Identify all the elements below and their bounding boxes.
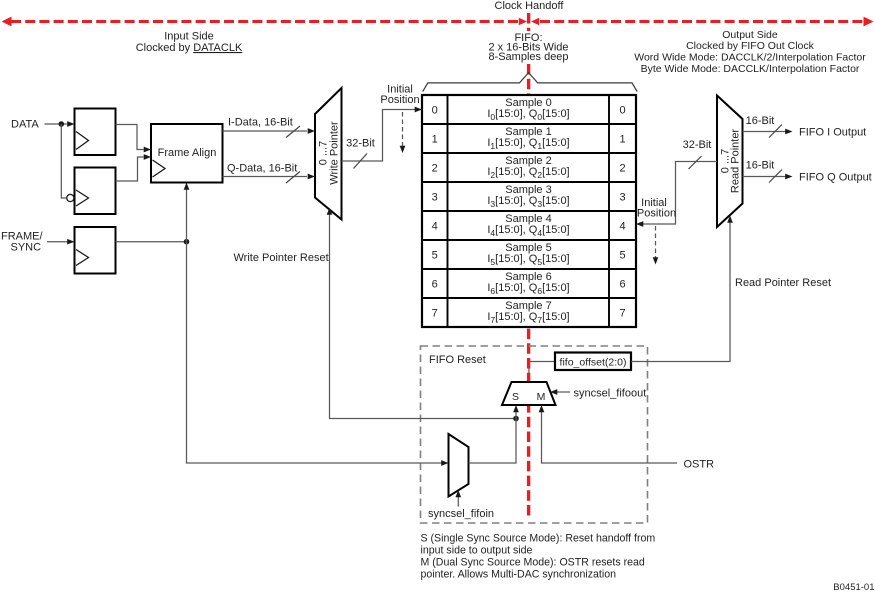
label 32-Bit write (346, 138, 375, 150)
svg-text:4: 4 (432, 220, 438, 232)
wire DATA input (45, 121, 75, 127)
wire I latch to Frame Align (116, 125, 152, 153)
label I-Data 16-Bit (228, 117, 293, 129)
wire initial position read (dashed arrow) (653, 226, 659, 265)
svg-text:Read Pointer Reset: Read Pointer Reset (735, 277, 831, 289)
svg-text:3: 3 (432, 191, 438, 203)
svg-text:SYNC: SYNC (11, 242, 42, 254)
label FRAME/SYNC (1, 231, 44, 254)
svg-text:8-Samples deep: 8-Samples deep (488, 51, 568, 63)
wire syncsel_fifoin select (455, 490, 461, 507)
svg-text:S (Single Sync Source Mode): R: S (Single Sync Source Mode): Reset hando… (421, 533, 656, 545)
svg-text:Clocked by DATACLK: Clocked by DATACLK (136, 42, 243, 54)
svg-text:DATA: DATA (11, 119, 39, 131)
svg-text:Sample 4: Sample 4 (505, 213, 551, 225)
svg-text:fifo_offset(2:0): fifo_offset(2:0) (560, 357, 627, 369)
svg-text:M: M (537, 391, 546, 403)
svg-text:7: 7 (432, 307, 438, 319)
label initial position read (637, 197, 676, 220)
label FIFO I Output (799, 127, 866, 139)
svg-text:FIFO Q Output: FIFO Q Output (799, 172, 872, 184)
node clock handoff boundary (red dashed vertical line) (527, 13, 530, 520)
svg-text:syncsel_fifoout: syncsel_fifoout (574, 388, 647, 400)
block Frame Align (151, 124, 223, 183)
svg-text:Input Side: Input Side (164, 31, 214, 43)
wire clock handoff span right (red dashed double arrow) (531, 17, 874, 27)
svg-text:Sample 2: Sample 2 (505, 155, 551, 167)
wire Q-Data bus (223, 172, 316, 184)
wire Q latch to Frame Align (116, 154, 152, 181)
mux S/M sync select (502, 382, 556, 405)
label DATA (11, 119, 39, 131)
svg-text:OSTR: OSTR (684, 459, 715, 471)
svg-text:4: 4 (619, 220, 625, 232)
wire syncsel_fifoin mux output (469, 419, 517, 464)
svg-text:2: 2 (619, 162, 625, 174)
wire syncsel_fifoout select (550, 389, 570, 395)
wire M input from OSTR (539, 405, 677, 463)
svg-text:32-Bit: 32-Bit (683, 139, 712, 151)
flip-flop FRAME/SYNC latch (75, 227, 116, 274)
wire FRAME/SYNC input (47, 239, 75, 245)
svg-text:0: 0 (432, 104, 438, 116)
block fifo_offset register (555, 353, 631, 371)
wire fifo_offset to read pointer reset (631, 216, 733, 362)
label syncsel_fifoout (574, 388, 647, 400)
label 32-Bit read (683, 139, 712, 151)
brace over FIFO (423, 73, 638, 92)
svg-text:Sample 0: Sample 0 (505, 97, 551, 109)
FIFO table (422, 95, 636, 327)
wire initial position write (dashed arrow) (400, 112, 406, 153)
label FIFO Q Output (799, 172, 872, 184)
svg-text:6: 6 (619, 278, 625, 290)
svg-text:Read Pointer: Read Pointer (730, 129, 742, 194)
wire clock handoff span left (red dashed double arrow) (2, 17, 528, 27)
svg-text:Clocked by FIFO Out Clock: Clocked by FIFO Out Clock (686, 40, 815, 52)
svg-text:Write Pointer: Write Pointer (329, 121, 341, 185)
svg-text:7: 7 (619, 307, 625, 319)
svg-text:Sample 7: Sample 7 (505, 300, 551, 312)
label Write Pointer Reset (234, 252, 329, 264)
svg-text:M (Dual Sync Source Mode): OST: M (Dual Sync Source Mode): OSTR resets r… (421, 557, 645, 569)
svg-text:Position: Position (380, 94, 419, 106)
svg-text:FIFO I Output: FIFO I Output (799, 127, 866, 139)
FIFO Reset dashed region (421, 346, 648, 523)
svg-text:16-Bit: 16-Bit (746, 115, 775, 127)
svg-text:I7[15:0], Q7[15:0]: I7[15:0], Q7[15:0] (487, 311, 569, 325)
svg-text:2: 2 (432, 162, 438, 174)
mux read pointer (717, 96, 743, 228)
wire write pointer reset (327, 208, 519, 422)
FIFO table sample rows (487, 97, 569, 325)
label Output Side clock description (634, 29, 866, 75)
svg-text:Sample 3: Sample 3 (505, 184, 551, 196)
svg-text:I2[15:0], Q2[15:0]: I2[15:0], Q2[15:0] (487, 166, 569, 180)
svg-text:Write Pointer Reset: Write Pointer Reset (234, 252, 329, 264)
svg-text:B0451-01: B0451-01 (833, 582, 874, 592)
svg-text:Q-Data, 16-Bit: Q-Data, 16-Bit (227, 163, 297, 175)
svg-text:Sample 1: Sample 1 (505, 126, 551, 138)
svg-text:I6[15:0], Q6[15:0]: I6[15:0], Q6[15:0] (487, 282, 569, 296)
svg-text:I1[15:0], Q1[15:0]: I1[15:0], Q1[15:0] (487, 137, 569, 151)
FIFO table row numbers (432, 104, 626, 319)
svg-text:1: 1 (432, 133, 438, 145)
svg-text:Sample 6: Sample 6 (505, 271, 551, 283)
svg-text:Clock Handoff: Clock Handoff (495, 0, 565, 12)
wire FIFO Q output (743, 170, 793, 183)
svg-text:Position: Position (637, 208, 676, 220)
label OSTR (684, 459, 715, 471)
svg-text:I4[15:0], Q4[15:0]: I4[15:0], Q4[15:0] (487, 224, 569, 238)
wire frame sync to syncsel_fifoin mux (187, 242, 449, 466)
wire FIFO I output (743, 125, 793, 138)
label 16-Bit I (746, 115, 775, 127)
label syncsel_fifoin (428, 508, 494, 520)
svg-text:1: 1 (619, 133, 625, 145)
svg-text:0: 0 (619, 104, 625, 116)
svg-text:I-Data, 16-Bit: I-Data, 16-Bit (228, 117, 293, 129)
svg-text:Frame Align: Frame Align (158, 147, 217, 159)
label Read Pointer Reset (735, 277, 831, 289)
svg-text:I3[15:0], Q3[15:0]: I3[15:0], Q3[15:0] (487, 195, 569, 209)
wire I-Data bus (223, 126, 316, 138)
label 16-Bit Q (746, 160, 775, 172)
svg-text:Byte Wide Mode: DACCLK/Interpo: Byte Wide Mode: DACCLK/Interpolation Fac… (641, 63, 860, 75)
wire write pointer 32-Bit bus to FIFO (342, 107, 423, 169)
wire read pointer 32-Bit bus from FIFO (636, 156, 717, 227)
svg-text:Word Wide Mode: DACCLK/2/Inter: Word Wide Mode: DACCLK/2/Interpolation F… (634, 52, 866, 64)
svg-text:I5[15:0], Q5[15:0]: I5[15:0], Q5[15:0] (487, 253, 569, 267)
label figure number B0451-01 (833, 582, 874, 592)
svg-text:Sample 5: Sample 5 (505, 242, 551, 254)
svg-text:pointer. Allows Multi-DAC sync: pointer. Allows Multi-DAC synchronizatio… (421, 569, 617, 581)
wire frame align reset (up) (184, 183, 190, 242)
wire S input (513, 405, 519, 419)
label Input Side clocked by DATACLK (136, 31, 243, 55)
note S and M mode description (421, 533, 656, 581)
svg-text:16-Bit: 16-Bit (746, 160, 775, 172)
mux syncsel_fifoin select (449, 434, 469, 497)
label FIFO description (488, 32, 568, 63)
svg-text:I0[15:0], Q0[15:0]: I0[15:0], Q0[15:0] (487, 108, 569, 122)
wire mux output to fifo_offset box (529, 362, 555, 383)
svg-text:6: 6 (432, 278, 438, 290)
label Clock Handoff (495, 0, 565, 12)
svg-text:FIFO Reset: FIFO Reset (429, 354, 486, 366)
flip-flop Q latch (inverted clock) (67, 168, 116, 215)
svg-text:Output Side: Output Side (722, 29, 778, 41)
svg-text:5: 5 (432, 249, 438, 261)
svg-text:32-Bit: 32-Bit (346, 138, 375, 150)
wire DATA to Q latch (61, 124, 66, 198)
flip-flop I latch (75, 109, 116, 156)
wire FRAME/SYNC latch output (116, 239, 190, 245)
mux write pointer (315, 88, 342, 220)
svg-text:input side to output side: input side to output side (421, 545, 533, 557)
svg-text:3: 3 (619, 191, 625, 203)
svg-text:5: 5 (619, 249, 625, 261)
label initial position write (380, 84, 419, 107)
label Q-Data 16-Bit (227, 163, 297, 175)
svg-text:S: S (512, 391, 519, 403)
svg-text:syncsel_fifoin: syncsel_fifoin (428, 508, 494, 520)
